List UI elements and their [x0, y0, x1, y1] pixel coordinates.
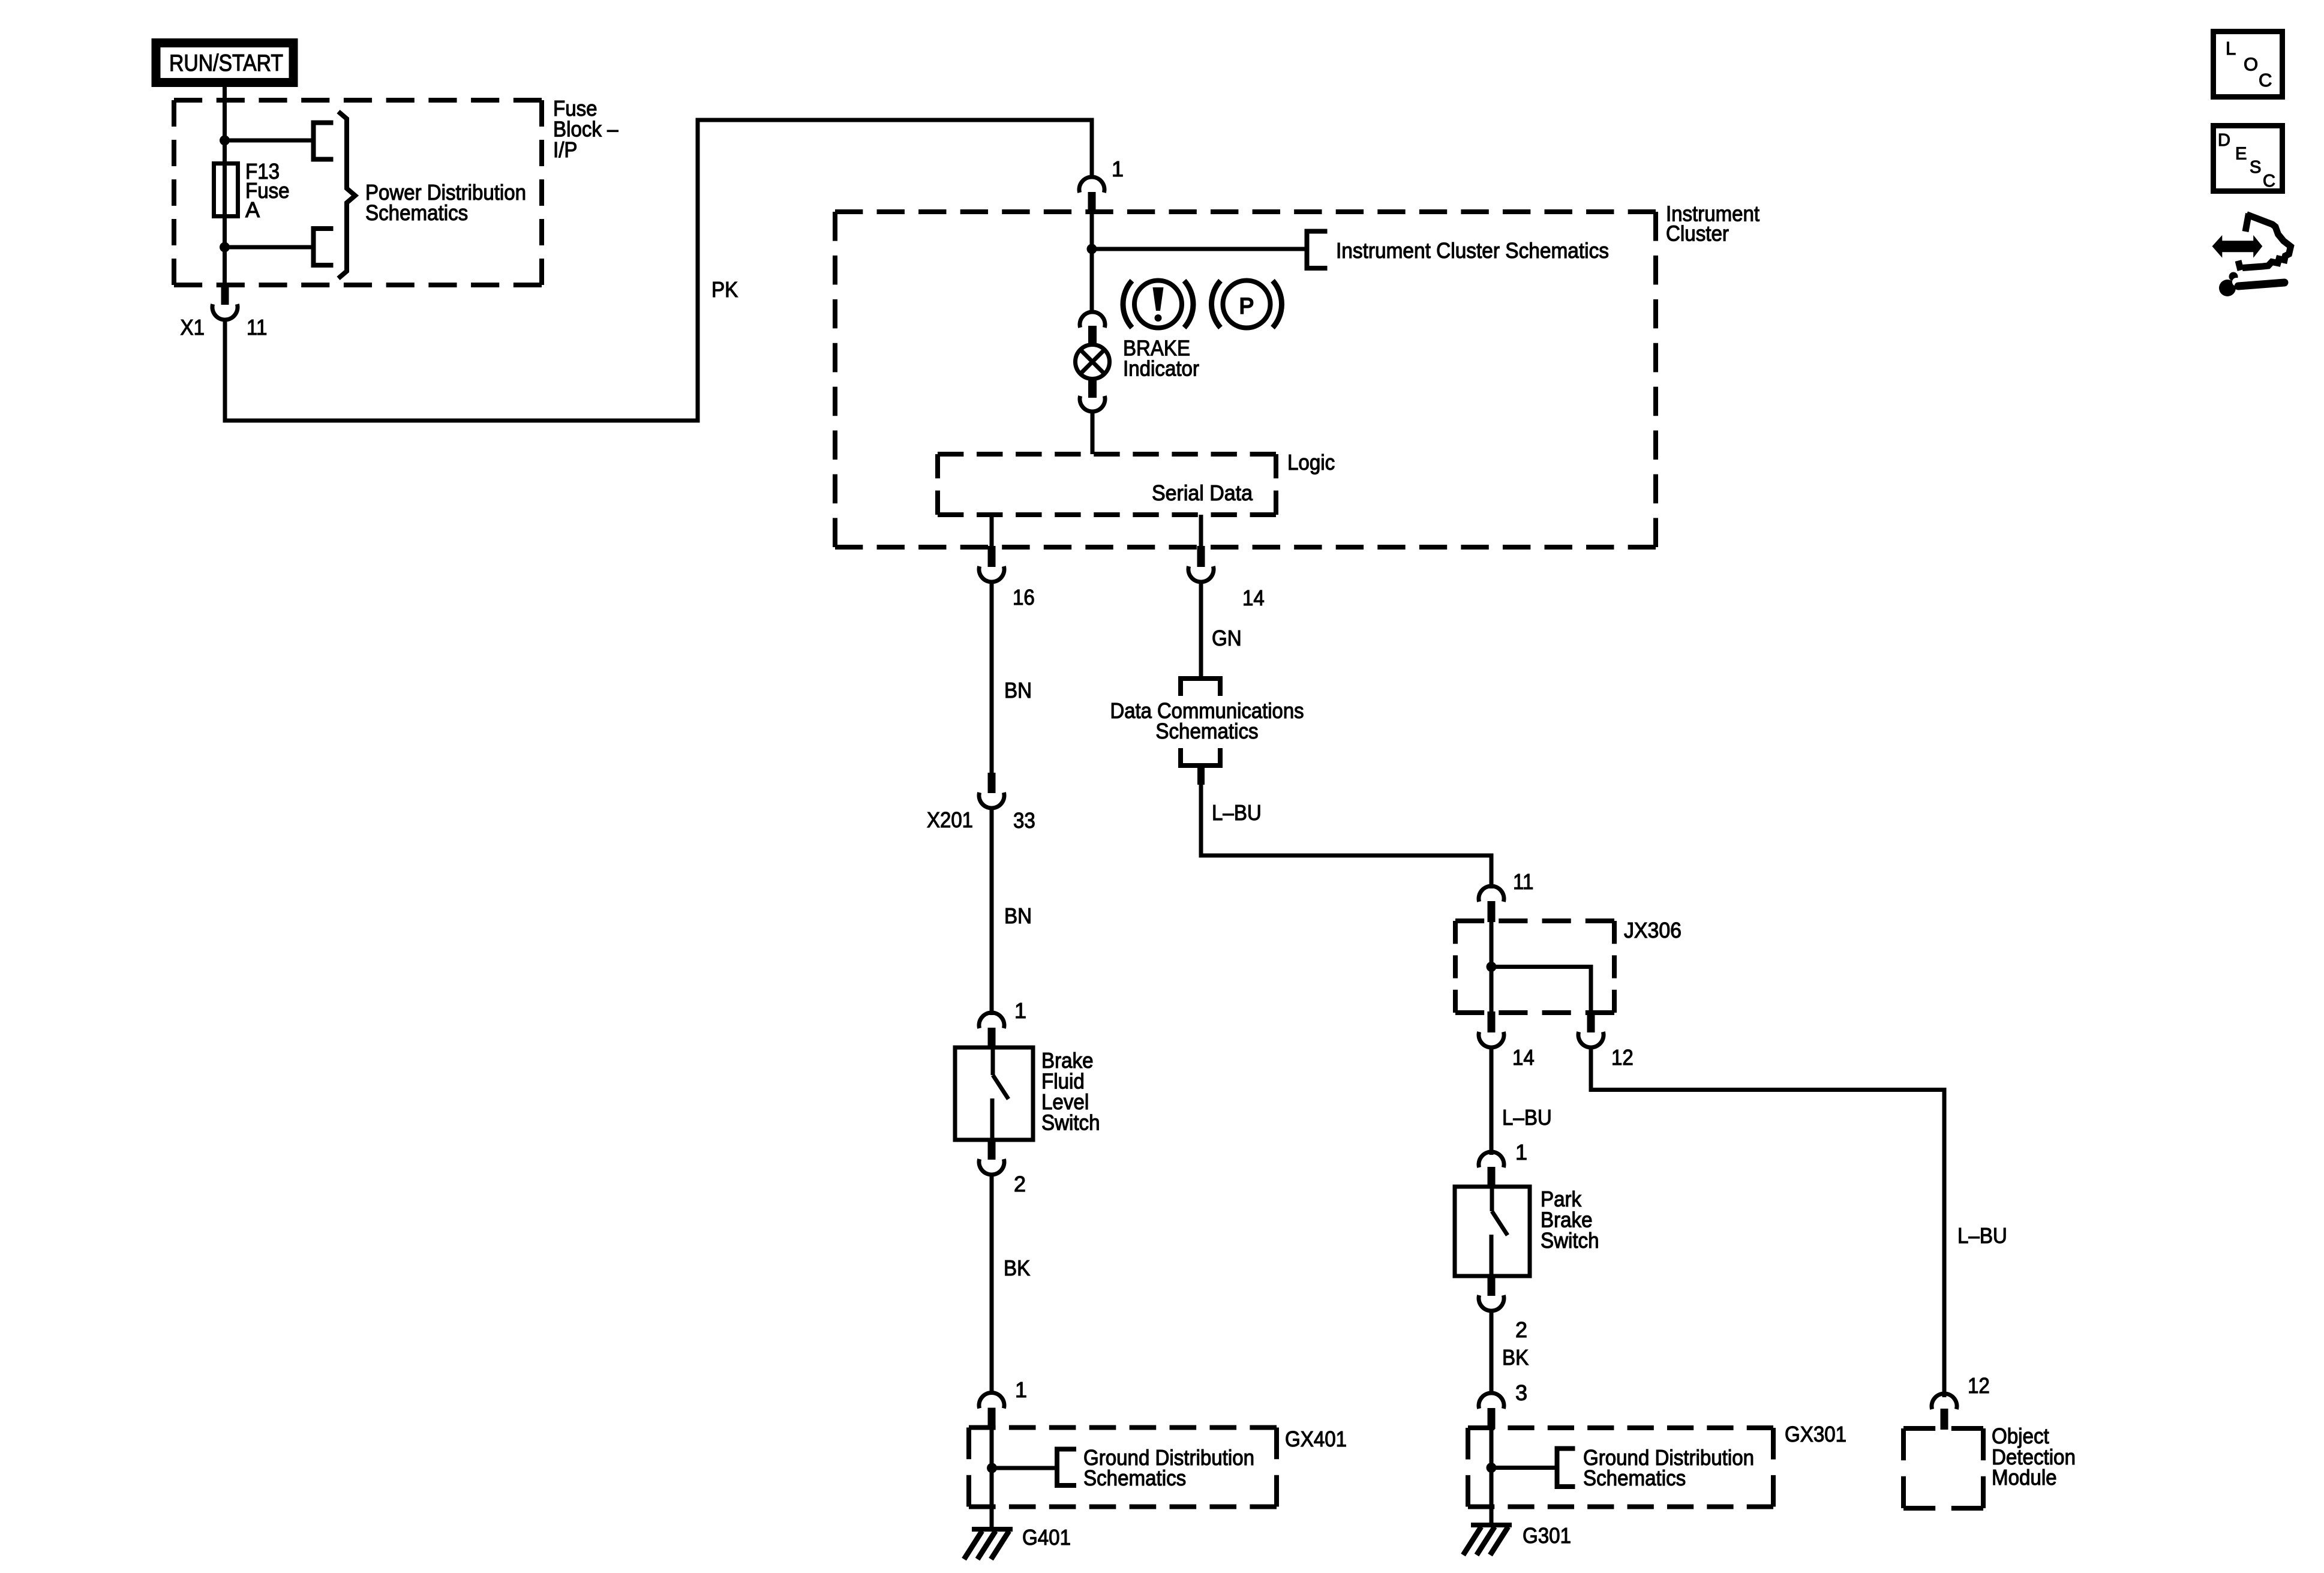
svg-text:Schematics: Schematics: [1083, 1466, 1186, 1490]
svg-text:Logic: Logic: [1287, 450, 1335, 475]
svg-text:GN: GN: [1212, 626, 1242, 650]
svg-text:G401: G401: [1022, 1525, 1071, 1550]
svg-text:GX401: GX401: [1285, 1427, 1347, 1451]
svg-text:L–BU: L–BU: [1502, 1105, 1552, 1130]
svg-text:1: 1: [1515, 1140, 1527, 1164]
svg-text:S: S: [2250, 158, 2261, 177]
svg-text:Schematics: Schematics: [365, 200, 468, 225]
svg-text:12: 12: [1968, 1373, 1990, 1398]
svg-text:Switch: Switch: [1541, 1228, 1599, 1253]
svg-text:A: A: [245, 197, 260, 222]
svg-text:33: 33: [1013, 808, 1035, 833]
svg-text:L–BU: L–BU: [1212, 800, 1262, 825]
svg-text:Switch: Switch: [1041, 1110, 1100, 1135]
svg-text:11: 11: [1513, 869, 1533, 894]
svg-text:RUN/START: RUN/START: [169, 50, 283, 76]
svg-text:L–BU: L–BU: [1957, 1223, 2007, 1248]
svg-text:O: O: [2244, 54, 2258, 75]
svg-text:1: 1: [1014, 998, 1026, 1023]
svg-text:Serial Data: Serial Data: [1152, 481, 1253, 505]
svg-text:D: D: [2218, 131, 2230, 150]
svg-text:JX306: JX306: [1624, 918, 1682, 942]
svg-text:14: 14: [1512, 1045, 1535, 1070]
svg-text:C: C: [2259, 70, 2272, 91]
svg-text:BK: BK: [1004, 1256, 1030, 1280]
svg-text:12: 12: [1611, 1045, 1634, 1070]
svg-text:GX301: GX301: [1785, 1422, 1846, 1446]
svg-text:1: 1: [1015, 1377, 1027, 1402]
svg-text:Indicator: Indicator: [1123, 356, 1199, 381]
svg-text:E: E: [2235, 145, 2247, 164]
svg-text:BK: BK: [1502, 1345, 1529, 1370]
svg-text:X201: X201: [927, 807, 973, 832]
svg-text:PK: PK: [711, 277, 738, 302]
svg-text:2: 2: [1515, 1317, 1527, 1342]
svg-text:C: C: [2263, 172, 2275, 191]
svg-text:Schematics: Schematics: [1155, 719, 1258, 743]
svg-text:11: 11: [247, 315, 267, 340]
svg-text:BN: BN: [1004, 678, 1032, 703]
svg-text:16: 16: [1013, 585, 1035, 610]
svg-text:BN: BN: [1004, 903, 1032, 928]
svg-text:Schematics: Schematics: [1583, 1466, 1686, 1490]
svg-text:X1: X1: [181, 315, 205, 340]
svg-text:Module: Module: [1992, 1465, 2057, 1490]
svg-text:1: 1: [1112, 157, 1124, 181]
svg-text:L: L: [2226, 38, 2236, 59]
svg-text:P: P: [1239, 294, 1254, 319]
svg-text:3: 3: [1515, 1380, 1527, 1405]
svg-text:2: 2: [1014, 1172, 1026, 1196]
svg-text:Cluster: Cluster: [1666, 221, 1729, 246]
svg-text:Instrument Cluster Schematics: Instrument Cluster Schematics: [1336, 238, 1609, 263]
svg-text:G301: G301: [1523, 1523, 1571, 1548]
svg-text:14: 14: [1242, 586, 1265, 610]
svg-text:I/P: I/P: [553, 137, 578, 162]
